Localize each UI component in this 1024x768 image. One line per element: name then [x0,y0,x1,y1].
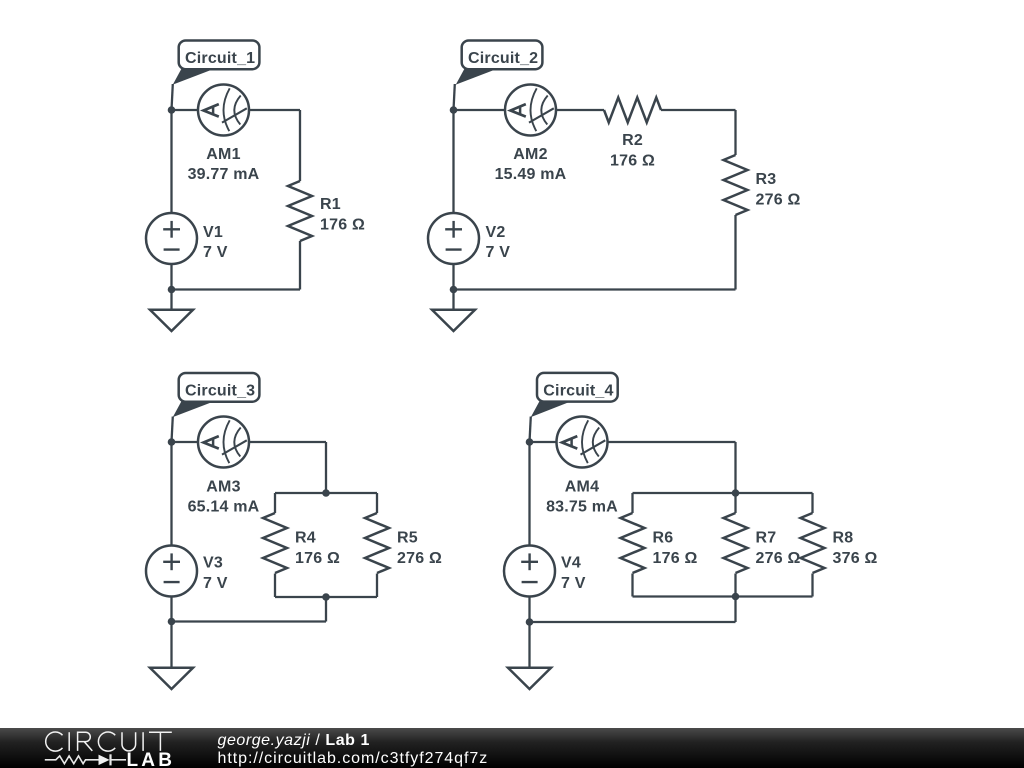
svg-text:R5: R5 [397,530,418,547]
wire: R8 top lead [811,493,813,513]
svg-text:AM1: AM1 [206,146,240,163]
svg-text:15.49 mA: 15.49 mA [495,166,567,183]
value label R6 176 ohm [653,530,698,568]
svg-text:V3: V3 [203,555,223,572]
svg-text:V1: V1 [203,224,223,241]
CircuitLab logo wordmark CIRCUIT [46,732,172,751]
value label R1 176 ohm [320,196,365,234]
resistor R2 (176 ohm, horizontal) [604,98,661,123]
node label Circuit_4 flag [531,373,618,417]
svg-text:7 V: 7 V [561,575,586,592]
wire: bottom rail of circuit 3 [172,620,327,622]
svg-text:R8: R8 [833,530,854,547]
voltage source V4 (7 V) [504,546,555,597]
value label AM3 65.14 mA [188,479,260,516]
wire: node label tail to top-left junction [172,84,173,110]
node label Circuit_1 flag [173,41,260,85]
wire: parallel network top rail [275,492,377,494]
wire: node label tail to top-left junction [454,84,455,110]
wire: V2 bottom terminal to bottom junction [452,264,454,290]
wire: resistor R2 right lead to top-right corner [661,109,736,111]
wire: bottom junction to ground stem [528,622,530,668]
wire: bottom rail junction down to main bottom wire [325,597,327,622]
svg-text:LAB: LAB [127,750,176,768]
value label AM2 15.49 mA [495,146,567,183]
ammeter AM4 [557,417,608,468]
junction: circuit 3 bottom node [168,618,176,626]
wire: top-left junction to ammeter AM3 left terminal [172,441,199,443]
wire: left rail from junction down to V2 top terminal [452,110,454,213]
svg-text:276 Ω: 276 Ω [756,192,801,209]
value label V3 7 V [203,555,228,593]
svg-text:7 V: 7 V [203,575,228,592]
value label R7 276 ohm [756,530,801,568]
wire: top-right corner down to resistor R1 top lead [299,110,301,181]
value label R2 176 ohm [610,132,655,170]
wire: top-right corner down to resistor R3 top lead [734,110,736,155]
wire: resistor R1 bottom lead to bottom-right corner [299,241,301,290]
junction: circuit 4 bottom node [526,618,534,626]
wire: top-left junction to ammeter AM2 left terminal [454,109,506,111]
svg-text:65.14 mA: 65.14 mA [188,499,260,516]
voltage source V2 (7 V) [428,213,479,264]
voltage source V1 (7 V) [146,213,197,264]
wire: left rail from junction down to V3 top terminal [170,442,172,546]
resistor R3 (276 ohm, vertical) [724,155,748,215]
wire: parallel network bottom rail [633,595,813,597]
wire: bottom junction to ground stem [170,622,172,668]
svg-text:R1: R1 [320,196,341,213]
resistor R6 (176 ohm, vertical) [621,513,645,573]
value label AM1 39.77 mA [188,146,260,183]
junction: parallel top rail node [322,489,330,497]
wire: bottom junction to ground stem [452,290,454,310]
svg-text:R6: R6 [653,530,674,547]
svg-text:7 V: 7 V [203,244,228,261]
CircuitLab logo resistor-diode glyph [45,754,126,765]
junction: parallel bottom rail node [322,593,330,601]
svg-text:R4: R4 [295,530,316,547]
svg-text:V4: V4 [561,555,581,572]
svg-text:176 Ω: 176 Ω [610,153,655,170]
svg-text:376 Ω: 376 Ω [833,550,878,567]
value label AM4 83.75 mA [546,479,618,516]
wire: corner down to parallel top rail junction [325,442,327,493]
wire: node label tail to top-left junction [530,417,531,443]
ground (circuit 3) [150,668,193,689]
ground (circuit 1) [150,310,193,331]
wire: ammeter AM3 right terminal to corner above parallel network [249,441,326,443]
ammeter AM2 [505,85,556,136]
svg-text:AM3: AM3 [206,479,240,496]
wire: left rail from junction down to V1 top terminal [170,110,172,213]
wire: node label tail to top-left junction [172,417,173,443]
wire: parallel network bottom rail [275,596,377,598]
resistor R8 (376 ohm, vertical) [801,513,825,573]
wire: V4 bottom terminal to bottom junction [528,597,530,623]
svg-text:R7: R7 [756,530,777,547]
svg-text:176 Ω: 176 Ω [320,217,365,234]
value label V1 7 V [203,224,228,261]
voltage source V3 (7 V) [146,546,197,597]
ground (circuit 2) [432,310,475,331]
resistor R4 (176 ohm, vertical) [263,513,287,573]
wire: parallel network top rail [633,492,813,494]
junction: parallel bottom rail node (circuit 4) [732,593,740,601]
wire: resistor R3 bottom lead to bottom-right corner [734,215,736,290]
wire: R8 bottom lead [811,574,813,597]
value label R4 176 ohm [295,530,340,568]
wire: R7 bottom lead [734,574,736,597]
svg-text:AM4: AM4 [565,479,599,496]
svg-text:R2: R2 [622,132,643,149]
wire: R5 top lead [376,493,378,513]
wire: ammeter AM1 right terminal to top-right corner [249,109,300,111]
svg-text:7 V: 7 V [486,244,511,261]
svg-text:176 Ω: 176 Ω [295,550,340,567]
resistor R1 (176 ohm, vertical) [288,181,312,241]
wire: R6 bottom lead [631,574,633,597]
junction: circuit 4 top-left node [526,438,534,446]
node label Circuit_2 flag [456,41,543,85]
svg-text:176 Ω: 176 Ω [653,550,698,567]
svg-text:276 Ω: 276 Ω [756,550,801,567]
wire: ammeter AM4 right terminal to corner above parallel network [608,441,736,443]
junction: circuit 2 bottom node [450,286,458,294]
wire: V3 bottom terminal to bottom junction [170,597,172,622]
wire: corner down to parallel top rail junction [734,442,736,493]
ammeter AM3 [198,417,249,468]
wire: ammeter AM2 right terminal to resistor R2 left lead [556,109,604,111]
wire: R6 top lead [631,493,633,513]
wire: R4 bottom lead [274,574,276,598]
value label R8 376 ohm [833,530,878,568]
svg-text:http://circuitlab.com/c3tfyf27: http://circuitlab.com/c3tfyf274qf7z [218,750,489,767]
wire: R5 bottom lead [376,574,378,598]
wire: bottom rail of circuit 1 [172,288,301,290]
wire: top-left junction to ammeter AM1 left terminal [172,109,199,111]
svg-text:Circuit_4: Circuit_4 [543,382,613,399]
wire: R4 top lead [274,493,276,513]
svg-text:39.77 mA: 39.77 mA [188,166,260,183]
wire: bottom rail junction down to main bottom wire [734,597,736,623]
svg-text:george.yazji / Lab 1: george.yazji / Lab 1 [218,732,370,749]
wire: left rail from junction down to V4 top terminal [528,442,530,546]
svg-text:83.75 mA: 83.75 mA [546,499,618,516]
svg-text:Circuit_2: Circuit_2 [468,50,538,67]
wire: R7 top lead [734,493,736,513]
wire: bottom rail of circuit 2 [454,288,736,290]
junction: circuit 1 top-left node [168,106,176,114]
svg-text:276 Ω: 276 Ω [397,550,442,567]
svg-text:V2: V2 [486,224,506,241]
svg-text:Circuit_1: Circuit_1 [185,50,255,67]
resistor R7 (276 ohm, vertical) [724,513,748,573]
wire: bottom rail of circuit 4 [530,621,736,623]
value label R3 276 ohm [756,171,801,209]
wire: bottom junction to ground stem [170,290,172,310]
CircuitLab logo diode triangle [99,755,110,766]
junction: parallel top rail node (circuit 4) [732,489,740,497]
value label R5 276 ohm [397,530,442,568]
svg-text:Circuit_3: Circuit_3 [185,383,255,400]
wire: V1 bottom terminal to bottom junction [170,264,172,290]
ground (circuit 4) [508,668,551,689]
junction: circuit 1 bottom node [168,286,176,294]
junction: circuit 2 top-left node [450,106,458,114]
node label Circuit_3 flag [173,373,260,417]
value label V2 7 V [486,224,511,261]
svg-text:AM2: AM2 [513,146,547,163]
wire: top-left junction to ammeter AM4 left terminal [530,441,557,443]
junction: circuit 3 top-left node [168,438,176,446]
svg-text:R3: R3 [756,171,777,188]
resistor R5 (276 ohm, vertical) [365,513,389,573]
value label V4 7 V [561,555,586,593]
ammeter AM1 [198,85,249,136]
